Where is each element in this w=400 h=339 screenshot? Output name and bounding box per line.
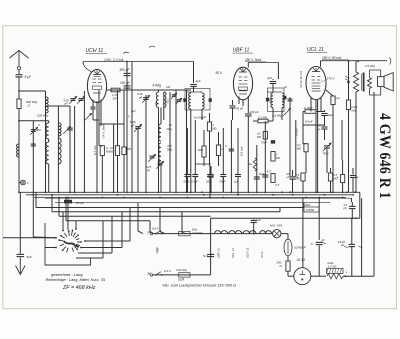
tube UCL11 extra [312,82,321,84]
junction [69,191,71,193]
wire antenna down [18,109,20,193]
resistor 1M col [271,152,275,162]
wire [117,124,119,146]
capacitor dark [290,176,296,178]
wire [57,106,59,192]
svg-text:µF: µF [203,116,206,119]
antenna [10,50,29,66]
junction [74,191,76,193]
wire [45,247,56,249]
svg-text:4,²00: 4,²00 [351,105,358,109]
svg-text:µF: µF [322,238,325,242]
wire [256,145,258,192]
wire [69,106,71,192]
tube UCH11 grids [93,78,97,80]
svg-text:1₅0: 1₅0 [336,96,340,100]
tick mark [149,46,155,47]
svg-text:pF: pF [138,95,143,99]
wire [230,120,232,192]
wire [210,218,212,233]
barretter U2419P [284,239,292,256]
trimmer pair osc [169,92,171,192]
trimmer [283,108,291,116]
output transformer primary [355,61,357,72]
bus main 3 [34,197,346,199]
svg-text:MΩ: MΩ [276,156,280,160]
wire mains right [210,234,212,275]
coil L2 [46,123,49,139]
capacitor 70&#181;F [222,166,224,174]
wire [295,120,297,176]
svg-text:UCL 11: UCL 11 [231,248,235,258]
speaker [378,77,385,87]
trimmer row under UCH [69,96,77,104]
wire [3,237,56,239]
svg-text:300: 300 [127,147,132,151]
svg-text:Wřg: Wřg [167,127,173,131]
bend down right [129,208,131,242]
wire [19,192,21,253]
svg-text:170 V: 170 V [327,77,336,81]
wire right v [361,198,363,276]
capacitor 200 [209,166,211,174]
wire drop sw1 [62,212,64,231]
wire UY anode [302,198,304,268]
tube UCH11 legs [92,100,94,105]
svg-text:UBF 11: UBF 11 [217,248,221,258]
junction [186,191,188,193]
junction [190,191,192,193]
coil pad [159,124,161,141]
wire [123,124,125,147]
trimmer C osc [63,126,71,134]
resistor 0,5M col [263,132,267,140]
wire [145,95,147,192]
svg-text:6,5 mA: 6,5 mA [93,145,97,155]
junction [113,191,115,193]
svg-text:+: + [346,271,348,275]
trimmer input [30,127,38,135]
coil L3 [46,142,49,164]
svg-text:100 Wřg: 100 Wřg [37,113,49,117]
wire [277,62,279,79]
bus main 1 [19,191,360,193]
svg-text:U2419 P: U2419 P [294,246,306,250]
svg-text:1700Ω: 1700Ω [306,208,315,212]
svg-text:70µF: 70µF [219,180,225,184]
svg-text:100 µF: 100 µF [250,110,259,114]
svg-text:pF: pF [64,102,68,106]
junction [346,191,348,193]
heater box top [211,217,360,219]
wire [318,198,320,241]
capacitor 70nF [271,140,275,143]
heater coil UCL11 [229,231,242,234]
junction [256,191,258,193]
svg-text:1³0V, 2,2 mA: 1³0V, 2,2 mA [104,58,124,62]
wave switch [68,231,71,236]
resistor 0,2M [304,144,308,152]
wire to switch [85,240,130,242]
svg-text:0,2: 0,2 [297,143,301,147]
resistor [100,146,104,156]
resistor 0,3M [301,173,305,181]
staircase to mains [137,203,139,231]
trimmer pair mid [148,154,156,162]
svg-text:pF: pF [130,123,135,127]
wire [317,100,319,192]
resistor 4700Wdg [346,100,350,110]
wire [287,271,289,276]
svg-text:gezeichnet : Lang: gezeichnet : Lang [51,272,83,277]
wire [19,120,49,122]
wire [310,110,312,113]
dist wire B [51,195,53,212]
wire [350,198,352,202]
wire [32,195,34,237]
dist wire E [303,203,305,208]
heater coil UCH11 [243,231,256,234]
resistor 1700 box [304,207,319,212]
svg-text:1µF: 1µF [256,218,261,222]
coil L1 [46,97,49,113]
node [18,120,20,122]
junction [131,191,133,193]
wire drop 4700 [348,61,350,100]
svg-text:µF: µF [284,86,287,89]
wire jog [195,163,211,165]
junction [354,191,356,193]
wire h mid right [303,124,325,126]
junction [145,191,147,193]
junction [332,191,334,193]
svg-text:85 V: 85 V [216,71,223,75]
output transformer core [363,73,365,92]
caps right of IF2 [289,97,291,103]
svg-text:30 pF: 30 pF [236,107,243,111]
resistor 0,1M UCL [305,110,316,114]
svg-text:M.K. 67A: M.K. 67A [270,223,282,227]
heater coil UY11 [260,231,272,234]
wire [101,156,103,193]
svg-text:Uſ 11: Uſ 11 [260,251,264,258]
svg-text:8,5 mA: 8,5 mA [240,146,244,156]
junction [264,191,266,193]
resistor [122,147,126,155]
wire stub [302,112,304,126]
tube UBF11 anode [239,71,247,73]
tube UCL11 grids [312,76,316,78]
wire anode up [82,62,84,65]
capacitor mid [229,148,235,150]
junction [355,217,357,219]
svg-text:DDŘ: DDŘ [178,277,184,282]
capacitor 5nF mains [207,253,214,255]
dot [357,60,359,62]
svg-text:-10³: -10³ [112,96,117,100]
capacitor under UCH [91,106,96,108]
junction [231,191,233,193]
capacitor [208,174,214,176]
resistor 0,5M [328,173,332,181]
capacitor 1uF heater [253,218,255,219]
node [126,89,128,91]
arrow marks [322,242,326,244]
wire [175,90,177,192]
resistor col bottom [271,174,275,183]
switch 0,6A [156,230,161,233]
capacitor [31,143,36,145]
wire [45,91,47,192]
svg-text:70nF: 70nF [261,141,267,145]
svg-text:7MΩ: 7MΩ [323,152,330,156]
field coil Feld [327,274,343,279]
plug pin 2 [150,274,152,276]
svg-text:1MΩ: 1MΩ [198,148,204,152]
svg-text:5n†: 5n† [203,254,208,258]
dist wire D [65,198,67,221]
ground [16,264,26,275]
svg-text:5µF: 5µF [27,255,32,259]
tube UBF11 legs [238,97,240,105]
capacitor 30pF [232,100,234,105]
svg-text:0,5: 0,5 [276,184,280,187]
resistor 280ohm [286,261,290,271]
coil antenna primary [17,144,20,157]
svg-text:2₂: 2₂ [105,146,108,150]
wire [343,275,374,277]
resistor [202,146,206,157]
wire [186,90,188,192]
potentiometer 7M [323,143,331,151]
IF1 shield box [185,89,210,111]
svg-text:Uſ 11: Uſ 11 [297,258,306,262]
svg-text:0,1MΩ: 0,1MΩ [304,106,313,110]
svg-text:5 µF: 5 µF [25,75,32,79]
tube UBF11 envelope [233,67,252,100]
svg-text:+6W: +6W [156,246,160,254]
junction [18,191,20,193]
junction [342,191,344,193]
resistor 1,25 [111,88,120,92]
svg-text:Reihenfolge : Lang, Mittel, Ku: Reihenfolge : Lang, Mittel, Kurz, TA [46,278,106,282]
svg-text:pµ: pµ [146,169,150,172]
junction [84,191,86,193]
switch 0,4A [156,272,161,275]
capacitor 1uF [190,84,197,86]
trimmer 6-26pF b [134,124,142,132]
svg-text:-14 V, 3mA: -14 V, 3mA [102,124,106,139]
wire [113,124,115,192]
wire [18,77,20,99]
svg-text:1µF: 1µF [196,79,201,83]
junction [58,191,60,193]
svg-text:3µ: 3µ [356,175,359,179]
wire [281,233,288,235]
junction [292,191,294,193]
trimmer 6-26pF [142,95,150,103]
svg-text:20Ω: 20Ω [304,203,311,207]
capacitor 4,5 [262,174,268,176]
coil L4 [58,123,61,136]
fuse DSL [179,231,190,235]
oscillator coil 2 [163,92,165,108]
svg-text:UCH 11: UCH 11 [245,247,249,258]
wire [237,128,239,166]
svg-text:310: 310 [166,86,171,89]
svg-text:4,2 W, 60 mA: 4,2 W, 60 mA [299,71,303,88]
resistor [216,145,220,156]
wire h [99,123,124,125]
capacitor 8uF [316,241,323,243]
junction [96,191,98,193]
wire [18,70,20,74]
terminal TA [21,180,26,185]
junction [247,191,249,193]
output transformer secondary [368,78,372,89]
junction [175,191,177,193]
wire y90 ext [188,89,191,91]
dots bus2 [51,194,53,196]
svg-text:310: 310 [282,98,286,103]
resistor 1M right [341,175,345,183]
caps 500pF 100pF [126,62,128,193]
resistor 500ohm antenna [17,99,21,109]
svg-text:×8ʋ. zum Lautsprecher Drossel: ×8ʋ. zum Lautsprecher Drossel 110–500 Ω [162,282,236,287]
wire [98,90,100,146]
dots bus3 [58,197,60,199]
wire mid v [123,90,125,124]
junction [158,191,160,193]
svg-text:1₄4 Wřg: 1₄4 Wřg [272,114,282,118]
svg-text:2µF: 2µF [266,76,272,80]
svg-text:UCH 11: UCH 11 [86,48,104,54]
capacitor 15-20b [349,243,356,245]
wire top right corner [390,58,391,65]
wire [19,258,21,265]
wire [287,256,289,261]
svg-text:1²5 Wřg: 1²5 Wřg [365,64,375,68]
junction [330,191,332,193]
thermistor squiggle [253,158,256,171]
resistor cath UCL [326,90,333,96]
switch enclosure wire [45,223,91,265]
svg-text:ZF = 468 kHz: ZF = 468 kHz [62,285,96,291]
svg-text:0,4 µF: 0,4 µF [305,120,313,124]
wire right column [373,92,375,276]
wire [247,61,249,63]
junction [281,191,283,193]
fuse DDR [179,273,190,277]
wire IF1 primary drop [193,62,195,84]
svg-text:0,6 A: 0,6 A [152,227,159,231]
wire [74,106,76,192]
capacitor 5000 [186,166,188,174]
tube UCL11 legs [310,97,312,111]
tube UCL11 anode [312,71,320,73]
junction [317,191,319,193]
bus main 2 [26,194,352,196]
capacitor 100uF [245,113,252,115]
wire [303,143,306,145]
wire UBF anode [247,62,249,67]
heater line [211,233,273,235]
svg-text:0,4 A: 0,4 A [164,269,171,273]
wire [311,275,326,277]
svg-text:8 Wřg: 8 Wřg [153,84,162,88]
mains line 2 [153,274,211,276]
junction [210,191,212,193]
capacitor 2,5nF [324,125,326,126]
junction [126,191,128,193]
wire [106,89,108,91]
capacitor 5uF antenna [16,74,23,76]
capacitor right [352,168,354,175]
resistor 1M [207,122,211,131]
svg-text:µF: µF [341,243,345,247]
junction [289,191,291,193]
capacitor 10uF bus [67,198,69,200]
wire [83,106,85,192]
wire UCL anode [320,61,322,67]
capacitor 10uF UCL [324,110,326,112]
IF2 shield box [268,88,285,112]
oscillator coils [158,90,160,92]
resistor 0,1M h [258,119,268,123]
dot [126,61,128,63]
tube UBF11 extra [239,90,247,92]
svg-text:100 pF: 100 pF [120,81,131,85]
svg-text:0,10: 0,10 [268,97,272,103]
dist wire C [58,198,60,217]
tube UBF11 grids [239,76,243,78]
resistor [115,146,119,156]
svg-text:0,1 MΩ: 0,1 MΩ [258,116,268,120]
svg-text:500 pF: 500 pF [120,68,131,72]
wire caps drop [186,177,188,192]
wire [194,120,196,166]
tube UCH11 extra [94,76,101,78]
heater coil UBF11 [215,231,228,234]
junction [201,191,203,193]
tube UCH11 anode [93,74,101,76]
wire [222,128,224,166]
capacitor 1&#181;F [237,166,239,174]
svg-text:180 V, 60 mA: 180 V, 60 mA [322,56,341,60]
IF transformer 1 [187,91,201,93]
tube UY11 [294,268,311,285]
IF transformer 2 [267,91,282,93]
wire [359,192,361,218]
trimmer [84,113,92,121]
wire [186,128,188,166]
svg-text:5ⁿ: 5ⁿ [225,145,227,148]
svg-text:3A: 3A [249,162,252,166]
coil L5 [58,138,61,164]
plug pin 1 [150,232,152,234]
svg-text:µF: µF [344,206,347,210]
wire [341,120,343,160]
lamp MK67A [273,229,281,237]
capacitor top right [349,205,356,207]
svg-text:310: 310 [166,99,170,104]
wire [264,121,266,192]
antenna coupling ball [17,67,20,70]
svg-text:UBF 11: UBF 11 [233,48,250,54]
wire top joins [46,105,71,107]
tube UCH11 plate lead [96,69,98,74]
wire [19,90,46,92]
